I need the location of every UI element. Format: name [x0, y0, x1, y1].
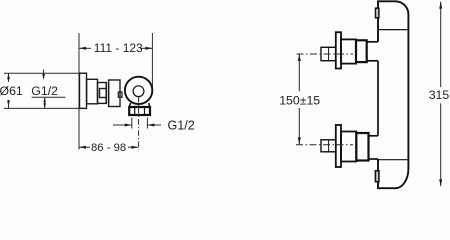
svg-text:111 - 123: 111 - 123 — [94, 41, 143, 55]
svg-text:315: 315 — [429, 88, 450, 102]
svg-text:150±15: 150±15 — [279, 94, 320, 108]
svg-text:Ø61: Ø61 — [0, 84, 23, 98]
svg-text:G1/2: G1/2 — [168, 119, 195, 133]
svg-text:G1/2: G1/2 — [31, 84, 58, 98]
svg-text:86 - 98: 86 - 98 — [91, 142, 126, 154]
